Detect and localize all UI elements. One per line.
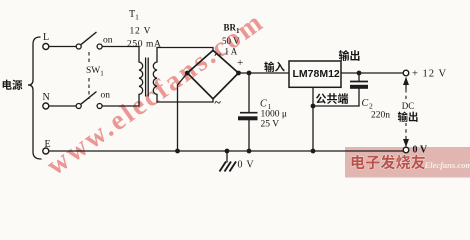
wire bridge plus to regulator input [239, 72, 290, 74]
svg-text:1000 μ: 1000 μ [261, 110, 287, 120]
svg-text:电源: 电源 [2, 78, 23, 93]
svg-text:输出: 输出 [339, 48, 361, 64]
transformer T1 primary winding [139, 62, 143, 94]
svg-text:~: ~ [215, 48, 222, 62]
svg-text:N: N [43, 92, 50, 103]
svg-text:2: 2 [369, 102, 373, 111]
switch SW1 mechanical link (dashed) [88, 52, 90, 99]
svg-text:0 V: 0 V [413, 145, 428, 156]
capacitor C1 bottom lead [248, 121, 250, 152]
transformer T1 secondary winding [153, 62, 157, 94]
terminal L [43, 44, 49, 50]
svg-text:C: C [362, 98, 369, 109]
junction ground at bus [225, 149, 230, 154]
svg-text:输入: 输入 [264, 60, 285, 75]
svg-text:Elecfans.com: Elecfans.com [424, 160, 470, 170]
svg-text:220n: 220n [371, 111, 390, 121]
terminal 0V right [403, 147, 409, 153]
svg-text:L: L [43, 32, 49, 43]
svg-text:+: + [237, 57, 243, 69]
wire secondary bottom to bridge AC bottom [157, 94, 213, 102]
junction common at bus [311, 149, 316, 154]
regulator common pin wire [312, 87, 314, 151]
mains input brace [28, 37, 41, 159]
arrow down at 0V [405, 138, 407, 147]
wire bridge minus to ground bus [178, 73, 188, 151]
capacitor C2 top lead [358, 73, 360, 81]
capacitor C2 plates [350, 81, 368, 83]
terminal E [43, 148, 49, 154]
terminal +12V [403, 70, 409, 76]
ground symbol [220, 162, 237, 172]
svg-text:25 V: 25 V [261, 120, 280, 130]
svg-text:on: on [103, 36, 113, 46]
arrow up at +12V [405, 78, 407, 90]
junction bridge minus at bus [175, 149, 180, 154]
junction common pin / C2 node [311, 104, 316, 109]
capacitor C2 bottom lead [358, 89, 360, 107]
elecfans logo box [345, 147, 470, 178]
svg-text:0 V: 0 V [238, 160, 255, 171]
svg-text:12 V: 12 V [130, 27, 152, 37]
svg-text:~: ~ [215, 95, 222, 109]
junction bridge right corner [236, 71, 241, 76]
switch SW1 pole N [76, 92, 102, 109]
bridge rectifier BR1 diamond [187, 50, 238, 98]
wire E terminal to 0V output (ground bus) [49, 150, 403, 152]
wire switch L to transformer primary top [102, 47, 139, 63]
junction C2 top [357, 71, 362, 76]
svg-text:输出: 输出 [398, 110, 419, 125]
terminal N [43, 103, 49, 109]
junction bridge left corner [185, 71, 190, 76]
wire regulator output to +12V terminal [341, 72, 403, 74]
svg-text:on: on [101, 91, 111, 101]
junction C1 top [247, 71, 252, 76]
ground stub below bus [226, 151, 228, 162]
switch SW1 pole L [76, 32, 102, 49]
junction C1 at bus [247, 149, 252, 154]
regulator U1 LM78M12 box [289, 61, 341, 87]
svg-text:LM78M12: LM78M12 [293, 68, 340, 80]
wire L terminal to switch [49, 46, 76, 48]
svg-text:1 A: 1 A [225, 47, 238, 57]
DC output dashed line [405, 89, 407, 138]
svg-text:50 V: 50 V [222, 36, 240, 46]
transformer T1 core [146, 58, 149, 96]
svg-text:公共端: 公共端 [316, 91, 349, 107]
wire common pin to C2 bottom [313, 105, 359, 107]
capacitor C1 top lead [248, 73, 250, 112]
wire N terminal to switch [49, 105, 76, 107]
svg-text:250 mA: 250 mA [127, 40, 161, 50]
svg-text:+ 12 V: + 12 V [412, 69, 447, 80]
wire secondary top to bridge AC top [157, 48, 213, 63]
svg-text:E: E [45, 139, 51, 150]
capacitor C1 plates [240, 112, 258, 114]
wire switch N to transformer primary bottom [102, 94, 139, 106]
svg-text:C: C [260, 99, 267, 110]
